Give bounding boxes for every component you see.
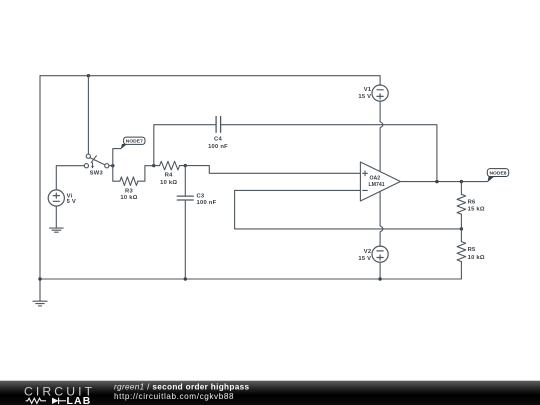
label OA2 LM741 [369, 176, 385, 188]
wire R3 to node [138, 166, 154, 182]
wire C4 branch up [154, 125, 216, 166]
voltage source V1 [372, 85, 388, 101]
voltage source V2 [372, 246, 388, 262]
op-amp plus input mark [363, 171, 368, 176]
svg-text:15 V: 15 V [358, 256, 371, 262]
wire to NODE7 flag [113, 149, 121, 166]
node junction at switch output [111, 164, 114, 167]
node junction V2/bottom rail [378, 277, 381, 280]
svg-text:NODE7: NODE7 [126, 139, 143, 145]
node junction output/C4 [435, 180, 438, 183]
svg-text:10 kΩ: 10 kΩ [120, 195, 137, 201]
node junction R3/R4/C4 [152, 164, 155, 167]
svg-text:rgreen1 / second order highpas: rgreen1 / second order highpass [114, 383, 249, 392]
svg-text:OA2: OA2 [370, 176, 381, 182]
svg-text:C3: C3 [197, 194, 205, 200]
svg-text:100 nF: 100 nF [208, 144, 228, 150]
wire C3 branch down [184, 166, 186, 197]
wire top rail [40, 76, 380, 86]
node junction output/R6 [460, 180, 463, 183]
svg-text:15 V: 15 V [358, 94, 371, 100]
wire R4 to node [180, 165, 186, 167]
svg-text:100 nF: 100 nF [197, 200, 217, 206]
wire feedback to -input [235, 190, 462, 229]
wire switch to node [109, 165, 113, 167]
label V2 15 V [358, 249, 371, 262]
wire V2 negative supply pin (hops over feedback wire) [380, 191, 383, 246]
wire Vi bottom [55, 206, 57, 228]
wire V2 to bottom rail [379, 262, 381, 279]
op-amp OA2 triangle [360, 162, 400, 201]
resistor R3 [120, 177, 138, 186]
voltage source Vi [48, 190, 64, 206]
label R6 15 kΩ [468, 199, 485, 212]
svg-text:10 kΩ: 10 kΩ [160, 180, 177, 186]
svg-text:V2: V2 [364, 249, 372, 255]
wire switch vertical [87, 76, 89, 154]
svg-text:R3: R3 [125, 188, 133, 194]
svg-text:15 kΩ: 15 kΩ [468, 207, 485, 213]
footer bar [0, 381, 540, 405]
node junction top-left of switch branch [87, 74, 90, 77]
label R4 10 kΩ [160, 173, 177, 186]
wire C4 to output node [221, 125, 437, 182]
svg-text:R5: R5 [468, 247, 476, 253]
wire down to R3 [113, 166, 120, 182]
resistor R4 [160, 161, 180, 170]
node NODE8 flag [487, 169, 508, 183]
ground (below Vi) [50, 228, 64, 232]
label C3 100 nF [197, 194, 217, 207]
wire node to R4 [154, 165, 160, 167]
op-amp minus input mark [363, 189, 368, 191]
label Vi 5 V [67, 193, 76, 205]
wire V1 positive supply pin (hops over C4 wire) [380, 101, 383, 172]
label R5 10 kΩ [468, 247, 485, 261]
resistor R5 [457, 229, 466, 279]
svg-text:5 V: 5 V [67, 199, 76, 205]
svg-text:R4: R4 [165, 173, 173, 179]
svg-text:R6: R6 [468, 199, 476, 205]
wire bottom rail [40, 278, 461, 280]
svg-text:NODE8: NODE8 [489, 170, 506, 176]
svg-text:http://circuitlab.com/cgkvb88: http://circuitlab.com/cgkvb88 [114, 392, 234, 401]
resistor R6 [457, 182, 466, 229]
node junction R4/C3 [184, 164, 187, 167]
svg-text:C4: C4 [214, 137, 222, 143]
label V1 15 V [358, 87, 371, 100]
svg-text:10 kΩ: 10 kΩ [468, 255, 485, 261]
svg-text:LM741: LM741 [369, 182, 385, 188]
svg-text:LAB: LAB [67, 396, 92, 405]
logo resistor squiggle [26, 398, 46, 403]
ground (bottom left) [33, 301, 47, 306]
node junction C3/bottom rail [184, 277, 187, 280]
label C4 100 nF [208, 137, 228, 150]
capacitor C4 [216, 117, 221, 133]
wire C3 to bottom rail [184, 200, 186, 279]
svg-text:V1: V1 [364, 87, 372, 93]
wire node to op-amp +input [185, 166, 360, 174]
svg-text:SW3: SW3 [90, 171, 104, 177]
label R3 10 kΩ [120, 188, 137, 201]
wire op-amp output [400, 181, 487, 183]
node junction bottom-left ground [38, 277, 41, 280]
capacitor C3 [177, 196, 193, 200]
logo diode [52, 398, 66, 404]
node junction R6/R5 [460, 227, 463, 230]
switch SW3 [84, 154, 109, 169]
node NODE7 flag [121, 137, 145, 149]
wire left vertical [39, 76, 41, 301]
wire Vi top [56, 166, 84, 190]
